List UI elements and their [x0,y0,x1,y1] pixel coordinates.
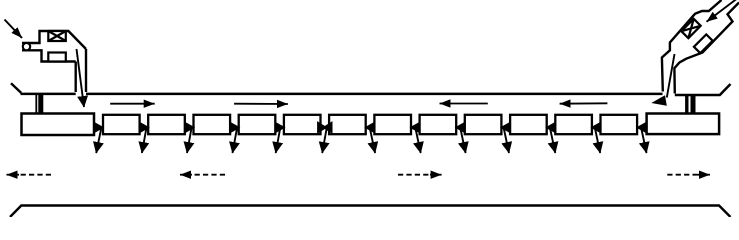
exhaust down arrow 9 [460,127,466,153]
heater box 4 [239,115,276,134]
arrow: feed into left gun [5,20,23,39]
heater box 12 [601,115,638,134]
gap arrow right-pointing g5 [275,124,284,132]
belt return band [10,206,731,218]
exhaust down arrow 8 [415,127,421,153]
flow arrow above belt 2 (right) [234,103,288,105]
arrow: right gun to belt [667,54,675,98]
gap arrow left-pointing g7 [366,124,374,132]
right support post [685,95,688,114]
big left box [22,114,95,136]
heater box 8 [420,115,457,134]
heater box 9 [465,115,502,134]
gap arrow left-pointing g12 [592,124,600,132]
spray gun left: chute left edge [74,62,76,93]
spray gun left: X-box [48,31,66,41]
exhaust down arrow 7 [370,127,376,153]
heater box 6 [329,115,366,134]
gap arrow left-pointing g10 [502,124,510,132]
dashed belt-travel arrow 3 (right) [398,174,431,176]
spray gun left: right edge to belt [85,49,87,92]
arrow: left gun to belt [77,49,85,107]
left support post [35,95,37,114]
spray gun left: nozzle circle [23,43,30,50]
exhaust down arrow 4 [233,127,238,153]
gap arrow left-pointing g9 [456,124,464,132]
exhaust down arrow 13 [641,127,647,153]
exhaust down arrow 12 [595,127,601,153]
gap arrow right-pointing g2 [140,124,149,132]
heater box 1 [103,115,140,134]
spray gun left: lower box [48,53,66,62]
heater box 2 [148,115,185,134]
conveyor top line left segment [21,93,76,96]
flow arrow above belt 3 (left) [440,103,488,105]
gap arrow left-pointing g8 [411,124,419,132]
gap arrow right-pointing g3 [185,124,194,132]
gap arrow left-pointing g13 [638,124,646,132]
conveyor top line main segment [86,93,663,96]
conveyor top line left slant [11,83,21,93]
arrow: feed into right gun [707,0,737,22]
dashed belt-travel arrow 2 (left) [191,174,225,176]
gap arrow right-pointing g1 [94,124,103,132]
spray gun right: lower box [694,34,713,53]
conveyor top line right segment and slant [675,84,731,95]
heater box 7 [374,115,411,134]
heater box 5 [284,115,321,134]
exhaust down arrow 1 [96,127,101,153]
gap bowtie arrows center g6 [318,123,331,131]
big right box [647,114,720,135]
heater box 11 [555,115,592,134]
dashed belt-travel arrow 1 (left) [18,174,52,176]
dashed belt-travel arrow 4 (right) [667,174,696,176]
spray gun left: body outline [22,31,86,49]
exhaust down arrow 6 [322,127,327,153]
heater box 10 [510,115,547,134]
flow arrow above belt 1 (right) [110,103,155,105]
exhaust down arrow 11 [550,127,556,153]
gap arrow left-pointing g11 [547,124,555,132]
exhaust down arrow 3 [187,127,192,153]
spray gun right: X-box [681,19,700,38]
spray gun left: lower outline [22,50,76,61]
flow arrow above belt 4 (left) [560,102,608,104]
exhaust down arrow 2 [142,127,147,153]
exhaust down arrow 5 [276,127,281,153]
gap arrow right-pointing g4 [230,124,239,132]
exhaust down arrow 10 [504,127,510,153]
heater box 3 [194,115,231,134]
spray gun right: upper-left boundary (channel top, top edge, nose, chute left) [662,0,722,92]
spray gun right: lower-right boundary (channel bottom, bottom edge, chute right) [674,3,739,94]
